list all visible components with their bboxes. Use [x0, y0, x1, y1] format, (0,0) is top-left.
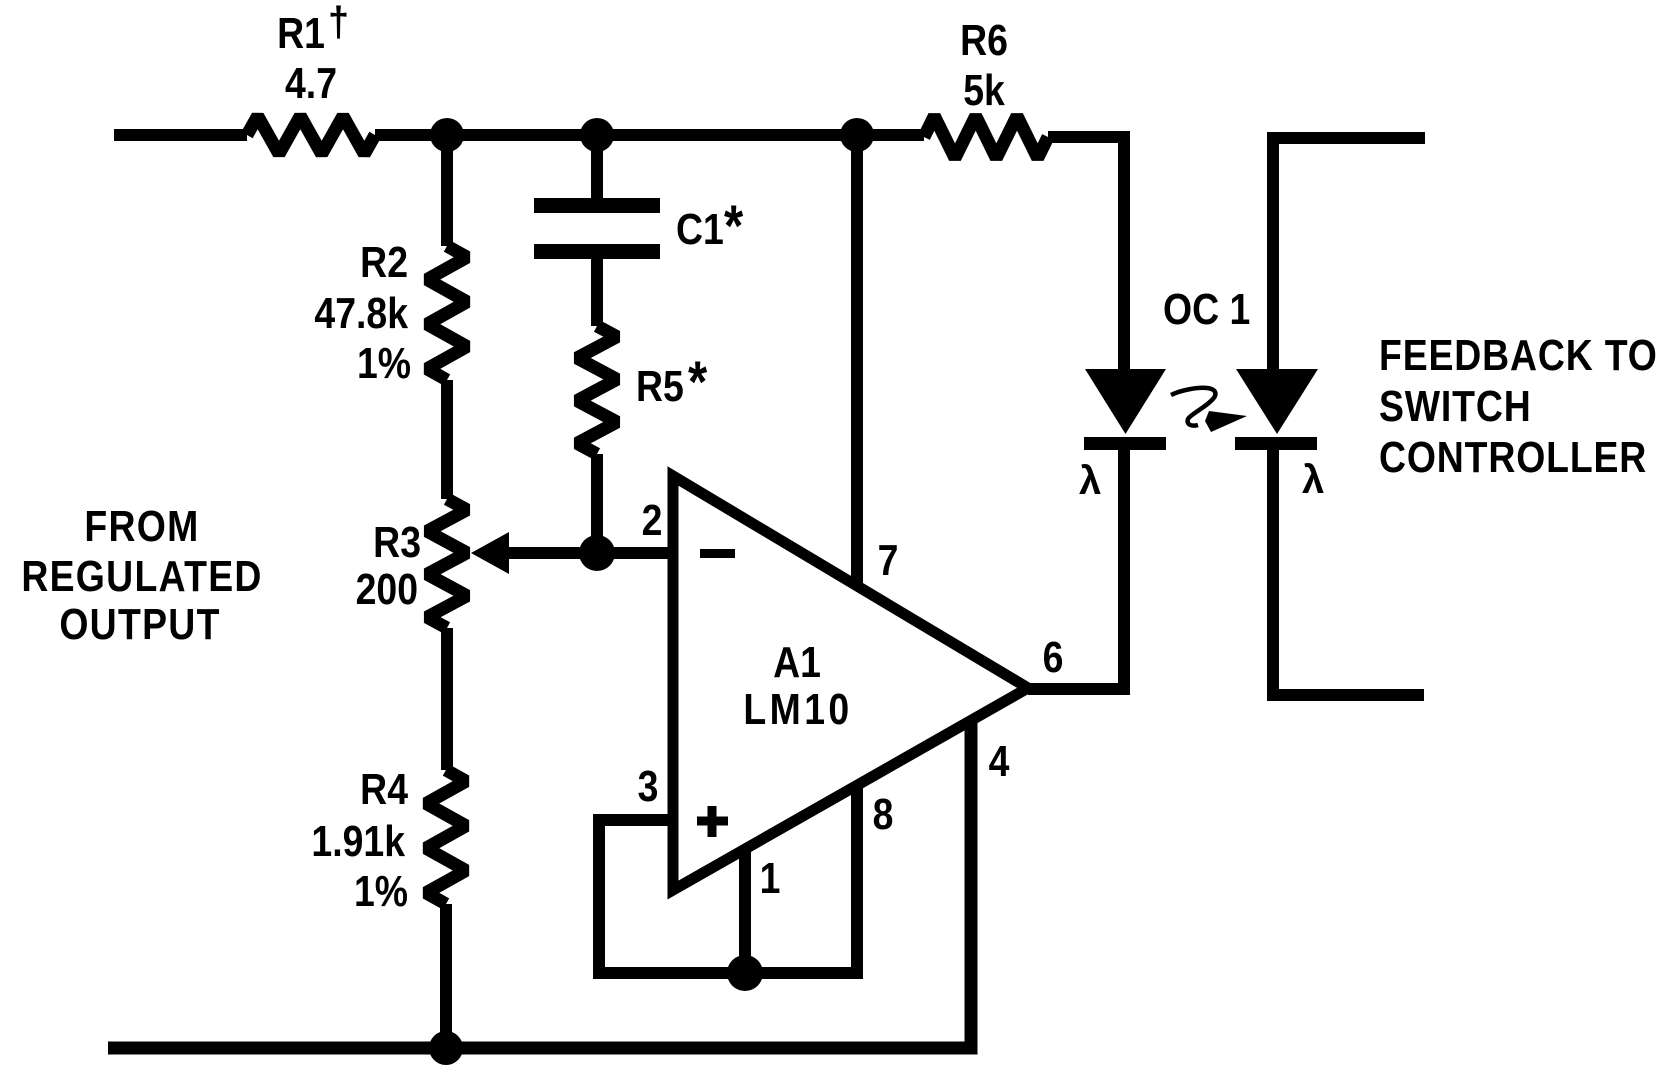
- svg-text:8: 8: [873, 789, 894, 839]
- wire: C1 to R5: [591, 259, 603, 326]
- svg-text:6: 6: [1043, 632, 1064, 682]
- optocoupler light arrow: [1171, 388, 1247, 432]
- svg-text:R5: R5: [636, 361, 684, 411]
- op-amp minus input mark: [700, 549, 735, 558]
- svg-text:C1: C1: [676, 204, 724, 254]
- svg-text:1: 1: [760, 853, 781, 903]
- label R5*: [636, 350, 707, 415]
- svg-text:SWITCH: SWITCH: [1379, 381, 1532, 431]
- svg-text:LM10: LM10: [743, 684, 852, 734]
- wire: right rail top: [1273, 138, 1425, 369]
- potentiometer R3: [427, 499, 467, 628]
- wire: pin 1 vertical: [739, 849, 751, 973]
- resistor R6: [924, 116, 1048, 158]
- svg-text:R2: R2: [360, 237, 408, 287]
- svg-text:4.7: 4.7: [285, 58, 337, 108]
- resistor R1: [247, 116, 375, 154]
- svg-text:OC 1: OC 1: [1163, 284, 1250, 334]
- svg-text:FEEDBACK TO: FEEDBACK TO: [1379, 330, 1658, 380]
- svg-text:A1: A1: [773, 637, 821, 687]
- wire: top rail left lead: [114, 129, 247, 141]
- wire: top rail middle: [375, 129, 924, 141]
- svg-text:3: 3: [638, 761, 659, 811]
- svg-text:REGULATED: REGULATED: [21, 551, 262, 601]
- node junction at C1 top: [580, 118, 614, 152]
- node junction pin1/pin3 loop: [727, 955, 763, 991]
- resistor R2: [427, 246, 467, 380]
- svg-text:λ: λ: [1079, 459, 1101, 503]
- R3 wiper arrow: [471, 532, 673, 574]
- node junction at R2 top: [430, 118, 464, 152]
- capacitor C1: [534, 198, 660, 259]
- svg-text:*: *: [724, 194, 743, 259]
- LED D1 of optocoupler: [1084, 369, 1166, 450]
- node junction bottom rail: [429, 1031, 463, 1065]
- wire: R3 to R4: [441, 628, 453, 770]
- svg-text:†: †: [328, 0, 349, 45]
- wire: pin 8 and pin 3 loop: [599, 786, 857, 973]
- wire: R4 to bottom rail: [440, 904, 452, 1048]
- svg-text:R1: R1: [277, 8, 325, 58]
- svg-text:1.91k: 1.91k: [311, 816, 405, 866]
- svg-text:CONTROLLER: CONTROLLER: [1379, 432, 1647, 482]
- node junction at pin7/R6: [840, 118, 874, 152]
- svg-text:7: 7: [878, 535, 899, 585]
- wire: R5 to node: [591, 454, 603, 553]
- svg-text:1%: 1%: [354, 866, 408, 916]
- op-amp plus input mark: [697, 806, 728, 837]
- svg-text:5k: 5k: [963, 65, 1005, 115]
- wire: C1 top stub: [591, 135, 603, 198]
- wire: R2 to R3: [441, 380, 453, 499]
- wire: left chain upper: [441, 135, 453, 246]
- wire: pin 7 vertical: [851, 135, 863, 588]
- wire: photodiode to feedback out: [1273, 443, 1424, 695]
- svg-text:47.8k: 47.8k: [314, 288, 408, 338]
- wire: R6 to LED vertical: [1048, 137, 1124, 369]
- resistor R4: [426, 770, 466, 904]
- svg-text:*: *: [688, 350, 707, 415]
- wire: pin 6 output to optocoupler: [1028, 443, 1124, 689]
- op-amp U1 triangle: [673, 476, 1028, 890]
- photodiode D2 of optocoupler: [1235, 369, 1318, 450]
- svg-text:200: 200: [356, 564, 418, 614]
- svg-text:R6: R6: [960, 15, 1008, 65]
- svg-text:FROM: FROM: [84, 501, 199, 551]
- svg-text:OUTPUT: OUTPUT: [59, 599, 220, 649]
- label C1*: [676, 194, 743, 259]
- svg-text:λ: λ: [1302, 458, 1324, 502]
- svg-text:2: 2: [642, 495, 663, 545]
- resistor R5: [577, 326, 617, 454]
- svg-text:1%: 1%: [357, 338, 411, 388]
- svg-text:4: 4: [989, 736, 1010, 786]
- svg-text:R3: R3: [373, 517, 421, 567]
- node junction at wiper/pin2: [579, 535, 615, 571]
- svg-text:R4: R4: [360, 764, 408, 814]
- wire: bottom rail: [108, 720, 971, 1048]
